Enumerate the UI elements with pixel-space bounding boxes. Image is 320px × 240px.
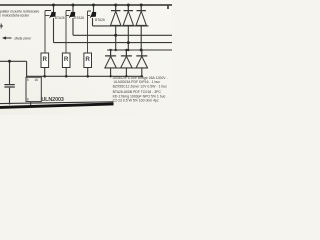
triac Q1 main wire + phase line 1	[54, 18, 173, 43]
triac Q1 body	[49, 12, 56, 19]
svg-text:ULN2003: ULN2003	[41, 97, 63, 103]
diode D1 body	[111, 11, 121, 25]
svg-text:e motocicleta-scuter: e motocicleta-scuter	[0, 14, 30, 18]
triac Q2 body	[69, 12, 76, 19]
svg-text:BZX55C12 Zener 12V 0.5W - 1 bu: BZX55C12 Zener 12V 0.5W - 1 buc	[113, 85, 168, 89]
lower diode anode stubs	[111, 68, 142, 76]
diode D2 body	[123, 11, 133, 25]
resistor R1	[41, 53, 49, 68]
triac Q1 gate wire	[45, 11, 51, 54]
diode D2 lower wire	[127, 26, 129, 50]
triac Q2 gate wire	[66, 11, 71, 54]
svg-text:KD-178mg 1000pF NPO 5% 1 buc: KD-178mg 1000pF NPO 5% 1 buc	[113, 94, 166, 98]
svg-text:BTA26: BTA26	[95, 18, 105, 22]
capacitor C lower wire	[9, 88, 11, 105]
triac Q3 gate wire	[88, 11, 92, 53]
resistor R2 lower stub	[65, 68, 67, 77]
diode D3 stub/bar	[137, 5, 146, 11]
bottom bus thick	[0, 104, 114, 108]
svg-text:ULN2003A PDF DIP16 - 1 buc: ULN2003A PDF DIP16 - 1 buc	[114, 80, 161, 84]
triac Q2 stub	[72, 5, 74, 13]
bus output tick	[167, 6, 169, 9]
resistor R3 lower stub	[87, 68, 89, 77]
diode D2 stub/bar	[124, 5, 133, 11]
IC U1 bottom stub	[30, 102, 32, 107]
zener stub left edge	[0, 24, 3, 29]
top bus	[0, 4, 172, 6]
resistor R2	[62, 53, 70, 68]
svg-text:8: 8	[27, 98, 29, 102]
diode D5 stub/bar	[121, 50, 132, 56]
diode D6 stub/bar	[136, 50, 147, 56]
diode D1 lower wire	[115, 26, 117, 50]
wire W1 gate common	[26, 75, 143, 77]
diode D4 stub/bar	[105, 50, 116, 56]
svg-text:R: R	[43, 56, 48, 63]
capacitor C plates	[4, 85, 14, 87]
svg-text:BTA26: BTA26	[55, 16, 65, 20]
triac Q3 main wire + diode anode line	[93, 18, 149, 26]
junction dots	[8, 4, 143, 78]
diode D5 body	[121, 56, 132, 68]
diode D3 body	[136, 11, 146, 25]
resistor R3	[84, 53, 92, 68]
resistor R1 lower stub	[44, 68, 46, 77]
phase line 3	[107, 49, 172, 51]
IC U1 ULN2003 box	[26, 77, 64, 103]
svg-text:16: 16	[34, 78, 38, 82]
diode D3 lower wire	[140, 26, 142, 50]
wire zener/cap node	[0, 61, 27, 77]
capacitor C wire	[9, 61, 11, 84]
component list	[113, 76, 168, 103]
triac Q3 stub	[93, 5, 95, 13]
svg-text:C2-23 0.5 W 5% 100 ohm 4pc: C2-23 0.5 W 5% 100 ohm 4pc	[113, 99, 159, 103]
triac Q1 stub	[53, 5, 55, 13]
svg-text:R: R	[64, 56, 69, 63]
svg-text:R: R	[85, 56, 90, 63]
svg-text:BTA26: BTA26	[74, 16, 84, 20]
diode D4 body	[105, 56, 116, 68]
bottom bus thin	[0, 102, 114, 104]
lower diode anode line	[105, 67, 148, 69]
triac Q3 body	[90, 12, 97, 19]
diode D1 stub/bar	[111, 5, 120, 11]
svg-text:5: 5	[27, 78, 29, 82]
svg-text:dioda zener: dioda zener	[15, 37, 32, 41]
arrow to zener	[4, 37, 12, 39]
triac Q2 main wire + phase line 2	[73, 18, 172, 35]
diode D6 body	[136, 56, 147, 68]
